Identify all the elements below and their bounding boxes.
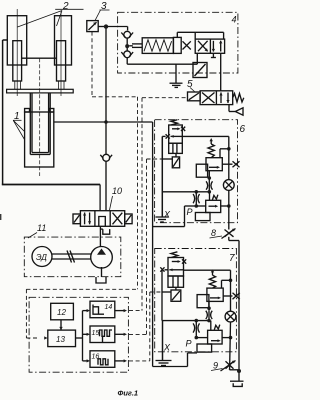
label 10 <box>110 196 113 210</box>
svg-text:Р: Р <box>187 207 193 217</box>
press cylinder 1 rod <box>30 93 50 154</box>
press cylinder 1 body <box>25 109 54 168</box>
dash-dot box 6 <box>155 120 238 223</box>
pilot cylinder (box4) <box>132 37 191 53</box>
wire: main vertical <box>105 27 107 155</box>
svg-text:14: 14 <box>105 304 113 311</box>
svg-text:13: 13 <box>56 335 65 344</box>
check valve on main <box>100 154 112 161</box>
wire into box 4 <box>106 26 128 28</box>
svg-text:5: 5 <box>187 79 193 90</box>
wire: check valves to drain manifold <box>126 58 128 64</box>
svg-text:10: 10 <box>112 186 122 196</box>
box7 X line <box>162 320 209 322</box>
check valve (box4 bottom) <box>121 48 133 58</box>
wires 13 to amplifiers <box>76 309 91 363</box>
input arrow to 13 <box>44 336 47 339</box>
dashed signal: amplifier 16 to box 7 valve <box>129 292 162 361</box>
svg-text:ЭД: ЭД <box>36 253 47 262</box>
box6 throttle upper <box>206 181 212 192</box>
block 12 <box>51 303 74 320</box>
svg-text:2: 2 <box>62 1 69 12</box>
pump <box>91 246 113 283</box>
wire: left rail <box>2 40 100 211</box>
solenoid (box4) <box>193 63 207 78</box>
box6 left line and tank X <box>156 136 173 222</box>
directional valve 10 <box>73 211 132 227</box>
dashed signal: sensor to controller <box>26 32 137 338</box>
box7 gauge <box>225 311 236 322</box>
amplifier block 16 <box>90 351 115 368</box>
box6 throttle lower <box>193 192 199 206</box>
svg-text:6: 6 <box>240 124 246 135</box>
svg-text:1: 1 <box>14 111 20 122</box>
node: main junction <box>104 120 108 124</box>
box7 P exit <box>153 353 197 367</box>
pilot loop over valve <box>177 32 223 39</box>
svg-text:4: 4 <box>232 15 237 25</box>
directional valve (box4) <box>195 39 224 53</box>
box6 lower valve <box>195 192 228 221</box>
label 2 <box>18 9 84 27</box>
throttle 8 <box>222 229 236 239</box>
svg-text:8: 8 <box>211 228 216 238</box>
svg-text:16: 16 <box>92 354 100 361</box>
amplifier block 15 <box>90 326 115 343</box>
block 13 <box>48 330 76 347</box>
svg-text:12: 12 <box>57 308 66 317</box>
svg-text:15: 15 <box>92 330 100 337</box>
arrow 12 to 13 <box>60 320 62 330</box>
press plate <box>7 89 74 93</box>
box6 relief valve <box>196 138 239 181</box>
box7 proportional valve <box>160 252 230 301</box>
electric motor <box>32 247 91 267</box>
ram centerline <box>39 58 41 176</box>
wire: rail jog down right side <box>229 237 239 381</box>
wire: check valve node to cylinder <box>129 45 133 47</box>
box6 proportional valve <box>166 120 229 168</box>
pressure sensor 3 <box>87 21 106 32</box>
svg-text:Р: Р <box>186 339 192 349</box>
clamp cylinder right (2) <box>55 12 72 97</box>
box7 throttle upper <box>206 310 212 320</box>
valve drain to tank <box>176 53 216 83</box>
svg-text:Фиг.1: Фиг.1 <box>118 389 139 398</box>
tank bottom right <box>230 381 244 386</box>
dashed signal: amplifier 14 to valve 5 <box>129 98 188 311</box>
clamp cylinder left (2) <box>7 9 26 96</box>
box7 lower valve <box>196 321 230 353</box>
label 5 <box>190 88 195 92</box>
output arrows 14/15/16 <box>115 309 127 363</box>
box7 relief valve <box>197 269 240 310</box>
wire: main pressure line to boxes 6/7 <box>152 122 154 367</box>
throttle 9 <box>221 361 240 372</box>
valve 5 <box>188 91 244 115</box>
wire: cylinder port to main <box>54 121 153 123</box>
crossbar <box>22 57 57 59</box>
dash-dot box 11 <box>24 237 121 277</box>
wire: box4 to valve 5 <box>220 53 222 91</box>
box7 right rail <box>230 270 232 311</box>
node between check valves <box>125 44 129 48</box>
box7 left line and tank X <box>156 270 172 366</box>
label 11 <box>28 233 37 239</box>
svg-text:7: 7 <box>229 253 235 264</box>
box6 right rail <box>228 136 230 179</box>
svg-text:9: 9 <box>213 361 218 371</box>
dashed signal: amplifier 15 to box 6 valve <box>129 159 162 334</box>
dash-dot box 7 <box>155 249 237 352</box>
valve 10 drain tank <box>100 226 109 247</box>
box6 P exit <box>153 206 197 227</box>
edge marks <box>0 214 1 220</box>
tank (box4) <box>170 83 183 87</box>
box7 throttle lower <box>193 321 199 338</box>
box6 gauge <box>223 180 234 191</box>
box6 X line <box>162 191 209 193</box>
label 3 <box>100 9 110 11</box>
svg-text:3: 3 <box>101 1 107 12</box>
control unit dash-dot box <box>29 297 128 372</box>
dashed box 4 <box>118 12 238 73</box>
label 1 <box>13 120 25 139</box>
node at sensor <box>104 24 108 28</box>
svg-text:X: X <box>163 343 171 353</box>
svg-text:X: X <box>163 210 171 220</box>
svg-text:11: 11 <box>37 223 46 233</box>
check valve (box4 top) <box>121 31 133 44</box>
amplifier block 14 <box>90 301 115 318</box>
